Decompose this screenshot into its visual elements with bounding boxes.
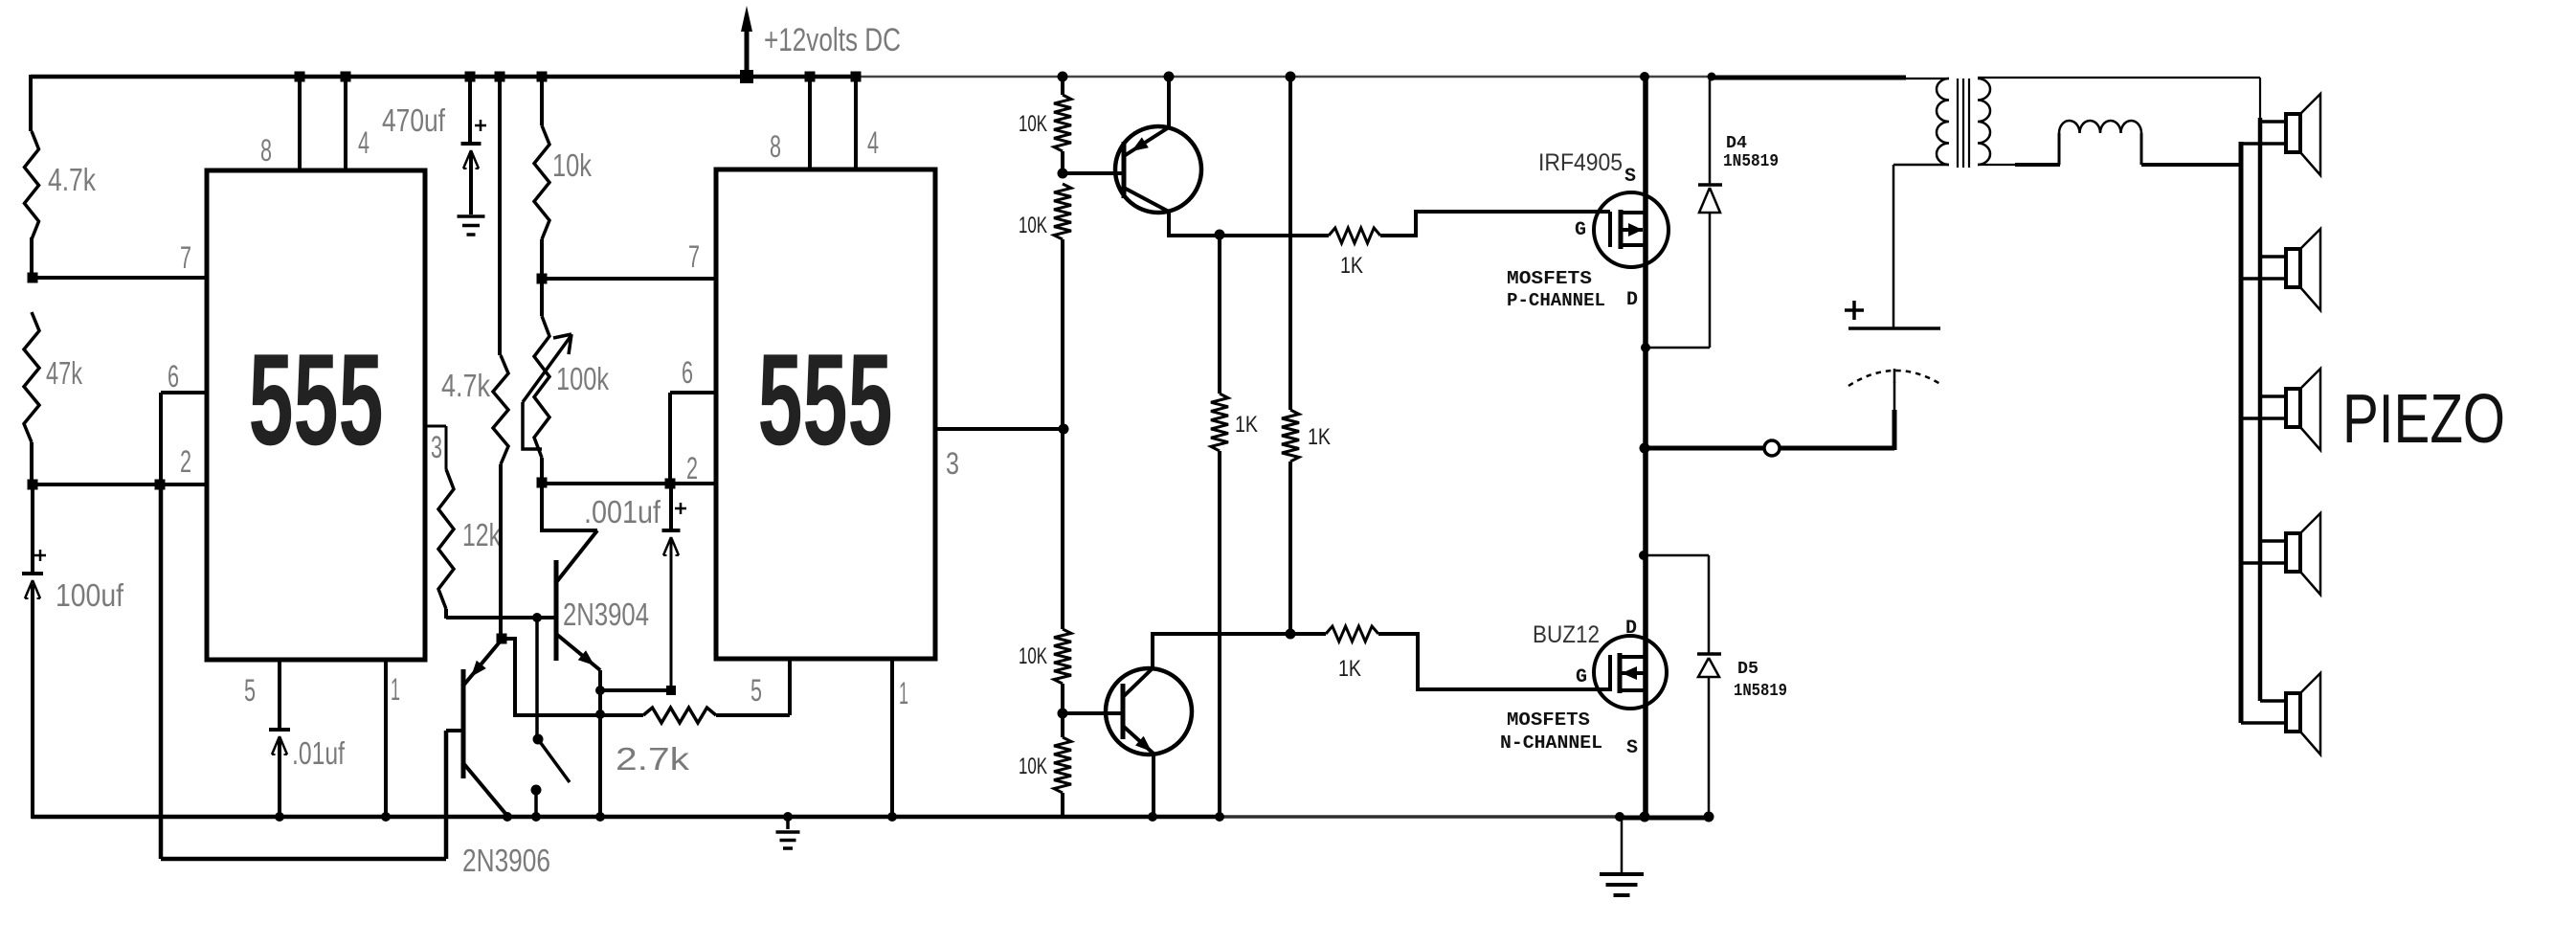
potentiometer R6 wiper arrow [523, 334, 571, 402]
label 470uf [382, 102, 446, 138]
wire D5 top link [1644, 554, 1709, 557]
transistor Q4 circle [1106, 668, 1192, 755]
svg-text:5: 5 [750, 673, 762, 708]
mosfet M1 top lead [1621, 211, 1646, 214]
label pin 1 (555#2) [899, 676, 908, 710]
junction D5 ground [1704, 812, 1714, 822]
wire open node to cap [1780, 410, 1894, 450]
label MOSFETS (N) [1507, 709, 1590, 731]
wire Q4 base [1063, 711, 1121, 715]
wire Q4 emitter to ground rail [1152, 754, 1155, 819]
capacitor C5 top plate [1848, 327, 1940, 330]
wire stub to ground rail [534, 790, 538, 819]
transistor Q1 2N3904 collector lead [557, 530, 597, 581]
junction rail pin8 (555#2) [805, 72, 816, 82]
junction node pin2 (555#2) [537, 478, 548, 488]
wire ground rail (right thick segment) [1620, 816, 1710, 821]
svg-text:3: 3 [431, 430, 442, 464]
svg-text:S: S [1626, 737, 1638, 759]
wire C4 bottom lead [670, 537, 673, 690]
wire pot bottom to pin2 node (555#2) [540, 458, 544, 484]
transistor Q3 circle [1115, 126, 1201, 213]
label + of C4 [675, 503, 686, 514]
junction pin6/C4 tie (555#2) [665, 479, 676, 489]
wire rail drop to R8 10K [1061, 77, 1064, 95]
mosfet M2 top lead [1620, 655, 1646, 659]
wire 555#1 pin 3 stub box [425, 426, 446, 469]
transistor Q2 2N3906 emitter lead [463, 640, 502, 686]
transistor Q4 collector lead [1123, 668, 1153, 697]
label .001uf [584, 494, 661, 529]
wire ground rail (left thick segment) [32, 815, 1222, 820]
label G of M1 [1575, 219, 1586, 241]
node open circle [1764, 440, 1780, 456]
label D4 [1726, 134, 1747, 153]
transformer T1 core [1958, 79, 1969, 168]
label pin 1 (555#1) [391, 672, 400, 707]
ic 555 #2 box [716, 169, 935, 659]
junction bus D4 [1641, 343, 1650, 352]
wire 555#2 pin 2 long [542, 482, 716, 485]
svg-text:2: 2 [686, 451, 698, 485]
label IRF4905 [1538, 149, 1623, 176]
label 4.7k R1 [48, 162, 96, 197]
wire Q1 collector to pin2 node [542, 484, 597, 530]
junction stub top [531, 785, 542, 796]
ground symbol right [1600, 818, 1644, 895]
wire +12V top rail (left thick segment) [31, 75, 858, 79]
svg-text:8: 8 [260, 133, 272, 168]
junction ground stub right [1615, 812, 1624, 822]
label 555 #2 [758, 327, 893, 472]
wire +12V rail thin lead into transformer primary [1906, 78, 1949, 79]
capacitor C4 .001uf [662, 530, 681, 555]
wire R11 top lead [1061, 713, 1064, 737]
wire Q3 base [1063, 171, 1122, 175]
junction Q4 emitter ground [1148, 812, 1157, 822]
mosfet M2 bottom lead [1620, 688, 1646, 692]
wire L1 to left speaker bus [2141, 163, 2243, 167]
inductor L1 coil [2059, 121, 2141, 133]
junction pin1 ground (555#2) [887, 812, 897, 822]
junction pin1 ground (555#1) [381, 812, 391, 822]
label pin 8 (555#1) [260, 133, 272, 168]
wire R8 to base node Q3 [1061, 151, 1064, 174]
piezo speaker SP4 [2241, 513, 2320, 595]
label 12k R5 [462, 517, 501, 552]
junction R12 ground [1215, 812, 1224, 822]
piezo speaker SP2 [2241, 229, 2320, 310]
mosfet M1 mid lead arrow [1621, 223, 1643, 236]
label PIEZO [2342, 381, 2505, 458]
label + of C5 [1845, 301, 1864, 320]
transistor Q1 2N3904 bar [554, 560, 559, 661]
junction rail pin4 (555#2) [851, 72, 862, 82]
junction Q2 collector ground [503, 812, 512, 822]
label 1K R14 [1308, 424, 1331, 450]
label pin 4 (555#2) [867, 125, 879, 160]
wire feedback run to pin2 node (555#1) [161, 857, 446, 862]
svg-text:10K: 10K [1019, 111, 1047, 137]
label 2N3904 [563, 597, 649, 632]
inductor L1 right leg [2140, 133, 2143, 165]
diode D5 1N5819 [1697, 654, 1721, 677]
label D of M1 [1626, 289, 1638, 311]
label D of M2 [1625, 618, 1637, 640]
wire 555#2 pin 3 [935, 427, 1064, 431]
svg-text:2.7k: 2.7k [616, 741, 690, 777]
wire R1 bottom to pin7 node [30, 237, 34, 280]
label pin 3 (555#1) [431, 430, 442, 464]
wire 555#2 pin 6 step [670, 393, 716, 484]
svg-text:1: 1 [391, 672, 400, 707]
wire cap lower lead thin [1893, 382, 1896, 412]
label S of M2 [1626, 737, 1638, 759]
wire Q2 base drop [444, 731, 449, 859]
svg-text:2N3906: 2N3906 [462, 843, 550, 878]
wire 555#1 pin 1 [384, 660, 388, 819]
mosfet M2 circle [1594, 636, 1667, 709]
capacitor C4 .001uf top lead [669, 484, 673, 529]
wire R4/Q2 node step [502, 639, 643, 715]
svg-text:G: G [1576, 666, 1587, 688]
resistor R11 10K [1054, 737, 1071, 793]
wire 555#2 pin 1 [890, 659, 894, 819]
svg-text:IRF4905: IRF4905 [1538, 149, 1623, 176]
piezo speaker SP1 [2241, 94, 2320, 175]
junction rail pin4 (555#1) [341, 72, 351, 82]
svg-text:1N5819: 1N5819 [1723, 152, 1779, 171]
wire Q4 collector up and right [1153, 634, 1290, 668]
wire C2 to ground rail [278, 737, 281, 819]
label 100uf [56, 577, 124, 613]
wire rail drop to R3 10k [540, 77, 544, 125]
svg-text:7: 7 [688, 239, 700, 274]
transistor Q2 2N3906 bar [461, 669, 466, 778]
power +12volts DC arrow [741, 6, 752, 76]
svg-text:10k: 10k [552, 147, 592, 183]
wire R4 to Q2 emitter node [499, 464, 503, 639]
svg-text:2: 2 [180, 444, 191, 479]
label D5 [1737, 660, 1758, 679]
wire Q3 collector run to 1K [1169, 234, 1329, 237]
label .01uf [292, 735, 346, 771]
transistor Q3 bar [1122, 142, 1127, 198]
label 10k R3 [552, 147, 592, 183]
resistor R9 10K [1054, 184, 1071, 239]
label N-CHANNEL [1500, 732, 1602, 754]
wire rail drop to R14 1K [1288, 77, 1292, 410]
svg-text:MOSFETS: MOSFETS [1507, 709, 1590, 731]
label 47k R2 [46, 355, 82, 391]
wire D4 bottom lead [1709, 213, 1712, 348]
svg-text:D4: D4 [1726, 134, 1747, 153]
label 1K R12 [1235, 412, 1258, 438]
wire tap drop [535, 618, 539, 739]
wire D5 bottom lead [1708, 677, 1711, 818]
resistor R2 47k [24, 312, 39, 442]
junction P-gate node / R12 [1215, 230, 1225, 240]
wire 555#1 pin 8 [298, 77, 302, 170]
svg-text:470uf: 470uf [382, 102, 446, 138]
svg-text:8: 8 [770, 129, 781, 164]
resistor R7 2.7k [643, 708, 716, 723]
label 4.7k R4 [441, 368, 490, 403]
label 10K R9 [1019, 213, 1047, 238]
label pin 6 (555#1) [168, 359, 179, 394]
label pin 6 (555#2) [682, 355, 693, 390]
resistor R4 4.7k [493, 355, 508, 464]
junction node pin7-R1-R2 [28, 273, 38, 283]
wire emitter junction down to ground rail [598, 690, 602, 819]
label pin 4 (555#1) [358, 125, 370, 160]
resistor R3 10k [534, 125, 549, 239]
wire 555#2 pin 7 [542, 277, 716, 281]
svg-text:4: 4 [867, 125, 879, 160]
wire 555#2 pin 8 [808, 77, 812, 169]
label pin 5 (555#2) [750, 673, 762, 708]
wire C3 to ground symbol [469, 151, 473, 214]
junction bus ground [1640, 812, 1650, 822]
svg-text:.01uf: .01uf [292, 735, 346, 771]
wire T1 secondary bottom lead [1978, 164, 2015, 166]
svg-text:100uf: 100uf [56, 577, 124, 613]
wire half-bridge bus [1643, 76, 1648, 817]
wire emitter junction to C4 bottom [600, 688, 671, 692]
label pin 7 (555#1) [180, 240, 191, 275]
junction pin3 wire / divider column [1059, 424, 1069, 435]
label +12volts DC [764, 22, 901, 58]
speaker bus right [2258, 118, 2263, 701]
capacitor C2 .01uf [269, 730, 290, 755]
junction rail R3 [537, 72, 548, 82]
svg-text:6: 6 [682, 355, 693, 390]
transistor Q1 2N3904 emitter lead [556, 634, 600, 670]
junction N-gate node [1286, 629, 1296, 640]
ground symbol center [776, 817, 800, 848]
mosfet M1 bottom lead [1621, 243, 1646, 247]
svg-text:1: 1 [899, 676, 908, 710]
junction base-wire tap [532, 613, 542, 622]
diode D4 1N5819 [1698, 185, 1722, 213]
wire 555#1 pin 5 [278, 660, 281, 728]
inductor L1 left leg [2058, 133, 2061, 165]
svg-text:6: 6 [168, 359, 179, 394]
potentiometer R6 100k body [534, 316, 549, 458]
junction tap lower end [533, 734, 544, 745]
svg-text:P-CHANNEL: P-CHANNEL [1507, 290, 1605, 311]
label 2.7k R7 [616, 741, 690, 777]
label 1N5819 D5 [1734, 682, 1787, 701]
junction rail R4 [495, 72, 505, 82]
resistor R1 4.7k [25, 131, 39, 239]
wire +12V top rail (thick segment over D4 to transformer) [1713, 76, 1906, 80]
resistor R8 10K [1054, 95, 1071, 151]
svg-text:4.7k: 4.7k [48, 162, 96, 197]
label 555 #1 [249, 327, 384, 472]
transistor Q4 emitter lead (arrow out) [1123, 726, 1154, 754]
wire D5 upper lead [1708, 555, 1711, 654]
svg-text:N-CHANNEL: N-CHANNEL [1500, 732, 1602, 754]
junction node pin7 (555#2) [537, 274, 548, 284]
junction rail R8 [1058, 72, 1068, 82]
junction stub ground [531, 812, 541, 822]
svg-text:1K: 1K [1340, 253, 1363, 279]
svg-text:BUZ12: BUZ12 [1533, 621, 1600, 648]
wire C5 top lead to transformer [1893, 165, 1895, 328]
mosfet M2 mid lead arrow [1620, 666, 1646, 680]
svg-text:555: 555 [249, 327, 384, 472]
label pin 5 (555#1) [244, 673, 256, 708]
wire ground rail (middle segment) [1222, 815, 1620, 818]
switch lever stroke [538, 739, 570, 782]
svg-text:S: S [1624, 166, 1636, 188]
label + of C1 100uf [34, 550, 46, 561]
svg-text:D: D [1626, 289, 1638, 311]
wire 555#2 pin 5 [788, 659, 792, 715]
capacitor C3 470uf [461, 144, 482, 169]
label P-CHANNEL [1507, 290, 1605, 311]
svg-text:10K: 10K [1019, 213, 1047, 238]
piezo speaker SP3 [2241, 369, 2320, 450]
junction bus D5 [1639, 551, 1648, 560]
wire pin2 node down to C1 [31, 484, 34, 572]
junction rail pin8 (555#1) [295, 72, 305, 82]
junction big dot +12V entry [740, 70, 753, 83]
label 1K R13 [1340, 253, 1363, 279]
wire D4 to bus [1646, 347, 1710, 349]
resistor R12 1K (pull) [1211, 394, 1228, 451]
capacitor C5 bottom plate arc [1848, 369, 1940, 386]
svg-text:100k: 100k [556, 361, 609, 396]
wire R11 to ground rail [1061, 793, 1064, 819]
label MOSFETS (P) [1507, 268, 1592, 289]
svg-text:10K: 10K [1019, 643, 1047, 669]
label S of M1 [1624, 166, 1636, 188]
svg-text:1K: 1K [1338, 656, 1361, 682]
label G of M2 [1576, 666, 1587, 688]
wire R9 bottom to pin3 junction [1061, 239, 1064, 429]
wire R3 to pin7 node (555#2) [540, 239, 544, 279]
resistor R10 10K [1054, 629, 1071, 684]
junction C4 bottom [666, 686, 676, 695]
wire T1 secondary top lead [1978, 77, 2260, 79]
wire Q3 collector down [1167, 212, 1171, 237]
wire output to open node [1646, 446, 1764, 451]
capacitor C1 100uf [22, 574, 43, 598]
transformer T1 secondary coil [1978, 79, 1990, 165]
junction rail R14 [1286, 72, 1296, 82]
svg-text:10K: 10K [1019, 754, 1047, 779]
label 10K R8 [1019, 111, 1047, 137]
wire 555#1 pin 2 [33, 483, 207, 486]
wire N-gate step [1378, 634, 1610, 689]
junction pin6/pin2 tie [155, 480, 166, 490]
svg-text:47k: 47k [46, 355, 82, 391]
junction base node Q3 [1058, 169, 1068, 179]
svg-text:1N5819: 1N5819 [1734, 682, 1787, 701]
svg-text:MOSFETS: MOSFETS [1507, 268, 1592, 289]
wire rail drop to C3 470uf [468, 77, 472, 144]
wire 12k to Q1 base [446, 609, 556, 619]
resistor R13 1K (P gate) [1329, 228, 1380, 243]
label 2N3906 [462, 843, 550, 878]
wire R12 top lead [1218, 235, 1221, 394]
junction base node Q4 [1058, 709, 1068, 719]
svg-text:3: 3 [946, 446, 959, 481]
mosfet M2 channel bar [1618, 653, 1623, 693]
wire feedback drop from pin2 node [159, 484, 164, 859]
resistor R5 12k [438, 469, 454, 609]
label pin 2 (555#2) [686, 451, 698, 485]
svg-text:PIEZO: PIEZO [2342, 381, 2505, 458]
wire 555#1 pin 6 step [161, 393, 207, 484]
label 10K R10 [1019, 643, 1047, 669]
wire +12V top rail (middle thin segment) [858, 76, 1644, 79]
svg-text:4.7k: 4.7k [441, 368, 490, 403]
wire 555#1 pin 4 [344, 77, 347, 170]
svg-text:.001uf: .001uf [584, 494, 661, 529]
wire divider column pin3 to R10 [1061, 429, 1064, 629]
resistor R14 1K (pull) [1282, 410, 1299, 462]
piezo speaker SP5 [2241, 673, 2320, 755]
junction ground stub center [783, 812, 793, 822]
label 1N5819 D4 [1723, 152, 1779, 171]
potentiometer R6 wiper return [523, 402, 542, 449]
svg-text:4: 4 [358, 125, 370, 160]
svg-text:G: G [1575, 219, 1586, 241]
ground symbol under C3 [458, 216, 485, 235]
wire D4 top lead [1709, 77, 1712, 185]
junction emitter-wire ground [595, 812, 605, 822]
transistor Q3 emitter lead (arrow to bar) [1124, 127, 1169, 156]
wire R14 to N-gate node [1288, 462, 1292, 634]
svg-text:+12volts DC: +12volts DC [764, 22, 901, 58]
svg-text:12k: 12k [462, 517, 501, 552]
junction C2 ground [275, 812, 284, 822]
svg-text:1K: 1K [1308, 424, 1331, 450]
wire T1 primary bottom lead [1893, 164, 1949, 167]
wire left rail drop to R1 [29, 75, 33, 131]
junction rail Q3 [1164, 72, 1175, 82]
label 100k R6 [556, 361, 609, 396]
junction bus top rail [1640, 72, 1649, 81]
label 10K R11 [1019, 754, 1047, 779]
label pin 8 (555#2) [770, 129, 781, 164]
transistor Q3 collector lead [1124, 188, 1169, 212]
resistor R15 1K (N gate) [1326, 626, 1378, 642]
junction rail C3 [465, 72, 476, 82]
wire +12V top rail (segment between half-bridge and D4) [1644, 76, 1713, 79]
wire secondary top drop to speaker bus [2259, 78, 2261, 120]
label pin 3 (555#2) [946, 446, 959, 481]
svg-text:D5: D5 [1737, 660, 1758, 679]
wire N-gate node to 1K [1290, 632, 1326, 636]
wire R2 bottom to pin2 node [30, 442, 34, 485]
wire rail drop to R4 4.7k [498, 77, 502, 355]
transistor Q4 bar [1121, 684, 1126, 739]
mosfet M1 circle [1594, 192, 1669, 267]
wire 555#1 pin 7 [33, 276, 207, 280]
wire Q3 emitter to rail [1167, 77, 1171, 127]
junction Q2 emitter / R4 node [497, 634, 507, 644]
junction emitter-wire / 2.7k wire [595, 709, 605, 719]
wire Q2 base [446, 729, 463, 732]
transformer T1 primary coil [1937, 79, 1949, 165]
junction Q1 emitter / C4 [595, 686, 605, 695]
svg-text:555: 555 [758, 327, 893, 472]
wire secondary to L1 [2015, 163, 2060, 167]
